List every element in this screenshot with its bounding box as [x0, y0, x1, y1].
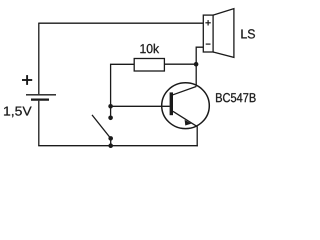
transistor Q1: [162, 83, 210, 129]
wire switch to rail: [110, 138, 112, 145]
transistor emitter lead: [173, 111, 197, 126]
transistor base bar: [170, 92, 173, 115]
label BC547B: [216, 93, 256, 102]
battery positive plate: [26, 94, 56, 96]
wire bottom rail: [38, 145, 198, 147]
battery negative plate: [31, 98, 49, 100]
wire resistor left to base node: [111, 64, 135, 106]
transistor collector lead: [173, 87, 196, 95]
speaker minus terminal mark: [206, 43, 211, 45]
switch bottom contact: [108, 136, 113, 141]
node collector junction: [194, 62, 199, 67]
label 10k: [140, 44, 159, 54]
switch lever: [92, 115, 111, 138]
speaker LS: [203, 9, 234, 58]
battery BAT1: [22, 75, 56, 100]
wire emitter to rail: [196, 126, 198, 146]
speaker body box: [203, 15, 213, 52]
node switch rail junction: [108, 143, 113, 148]
label LS: [241, 29, 255, 38]
speaker plus terminal mark: [205, 22, 210, 24]
wire speaker minus to collector: [196, 47, 203, 86]
switch top contact: [108, 116, 113, 121]
wire battery positive lead: [38, 23, 40, 95]
label 1,5V: [4, 107, 32, 118]
resistor R1: [134, 59, 164, 72]
speaker cone: [213, 9, 234, 58]
wire base: [111, 105, 170, 107]
battery plus polarity mark: [22, 79, 32, 81]
wire battery negative lead: [38, 101, 40, 146]
node base junction: [108, 104, 113, 109]
transistor body circle: [162, 83, 210, 129]
wire top rail: [39, 22, 204, 24]
wire base node to switch: [110, 106, 112, 118]
switch S1: [92, 115, 113, 146]
wire resistor right to collector node: [164, 63, 196, 65]
transistor emitter arrow: [185, 120, 192, 126]
